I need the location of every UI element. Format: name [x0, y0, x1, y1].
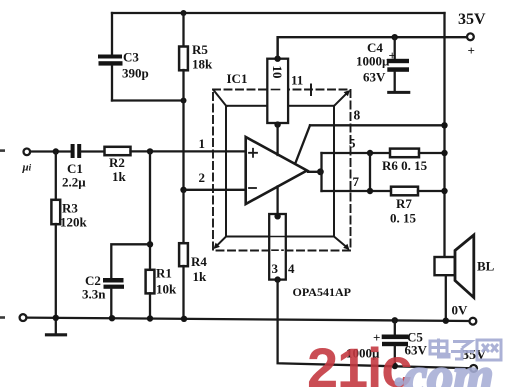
svg-text:4: 4 — [288, 261, 295, 276]
svg-text:0V: 0V — [452, 303, 469, 318]
wire feedback node to pin2 — [182, 101, 184, 190]
svg-text:7: 7 — [353, 174, 360, 189]
node input R3 — [53, 148, 59, 154]
svg-text:OPA541AP: OPA541AP — [293, 285, 351, 299]
watermark dot — [394, 377, 403, 386]
node gnd R3 — [53, 315, 59, 321]
svg-text:μi: μi — [22, 162, 32, 174]
label R3 value — [60, 201, 88, 230]
resistor R5 — [179, 13, 188, 101]
can corner diagonal top-left — [214, 91, 227, 107]
wire ground bus — [27, 318, 470, 321]
watermark CJK wang — [477, 340, 501, 360]
node pin7 junction — [367, 188, 373, 194]
svg-text:R6 0. 15: R6 0. 15 — [382, 158, 428, 173]
terminal +35V — [467, 33, 474, 40]
node gnd C2 — [109, 315, 115, 321]
svg-text:0. 15: 0. 15 — [390, 211, 417, 226]
wire pin2 — [184, 189, 246, 191]
svg-text:10: 10 — [270, 66, 285, 79]
svg-text:1k: 1k — [112, 169, 127, 184]
label C5 value — [346, 330, 428, 361]
node R6 rail — [441, 150, 447, 156]
can corner arrow top-right — [334, 90, 350, 106]
svg-text:R1: R1 — [156, 266, 172, 281]
svg-text:1000μ: 1000μ — [356, 54, 390, 69]
wire right output rail — [443, 13, 445, 257]
node C5 top — [392, 317, 398, 323]
svg-text:R5: R5 — [192, 42, 208, 57]
svg-text:R2: R2 — [109, 155, 125, 170]
svg-text:R7: R7 — [396, 196, 412, 211]
node C4 top — [392, 34, 398, 40]
svg-text:18k: 18k — [192, 57, 213, 72]
watermark CJK zi — [451, 342, 474, 360]
wire pin4 to -35V rail — [278, 280, 470, 369]
label C2 value — [82, 273, 106, 302]
node pin8 rail — [441, 122, 447, 128]
+35V rail wire — [278, 37, 467, 59]
label C3 value — [122, 50, 149, 81]
wire R2 to pin1 — [131, 150, 246, 152]
node gnd R4 — [181, 316, 187, 322]
wire top output rail — [112, 12, 445, 14]
tick pin11 — [310, 85, 312, 96]
resistor R2 — [105, 147, 131, 155]
scan mark left input — [0, 149, 5, 152]
node pin2 — [180, 187, 186, 193]
wire R1 branch — [149, 151, 151, 270]
wire pin5-pin7 link — [369, 153, 371, 191]
svg-text:10k: 10k — [156, 282, 177, 297]
IC1 dashed package outline — [213, 90, 351, 251]
wire C3 to R5 node — [112, 99, 184, 101]
svg-text:5: 5 — [349, 136, 356, 151]
label C1 value — [62, 161, 86, 190]
resistor R1 — [146, 270, 155, 319]
plus input mark — [249, 149, 257, 157]
node speaker gnd — [443, 318, 449, 324]
node R7 rail — [441, 188, 447, 194]
svg-text:BL: BL — [477, 259, 495, 274]
terminal -35V — [470, 365, 477, 372]
svg-text:35V: 35V — [458, 11, 486, 28]
svg-text:390p: 390p — [122, 66, 149, 81]
node output — [317, 168, 324, 175]
resistor R4 — [179, 190, 188, 319]
pin10/11 box — [267, 37, 288, 155]
svg-text:2: 2 — [199, 170, 206, 185]
svg-text:C3: C3 — [123, 50, 139, 65]
terminal 0V — [470, 318, 477, 325]
resistor R6 — [390, 149, 445, 158]
capacitor C5 — [382, 320, 408, 366]
IC1 can outline — [226, 106, 334, 237]
svg-text:1: 1 — [199, 136, 206, 151]
ground terminal — [20, 314, 27, 321]
input terminal — [24, 149, 31, 156]
label R7 value — [390, 196, 417, 226]
svg-text:3: 3 — [272, 261, 279, 276]
node pin5 junction — [367, 150, 373, 156]
node gnd R1 — [147, 315, 153, 321]
resistor R3 — [51, 152, 60, 318]
node C2 tap — [147, 241, 153, 247]
svg-text:8: 8 — [354, 108, 361, 123]
svg-text:11: 11 — [291, 73, 303, 88]
svg-text:R3: R3 — [62, 201, 78, 216]
capacitor C3 — [98, 13, 123, 101]
svg-text:63V: 63V — [363, 70, 386, 85]
minus input mark — [249, 187, 256, 189]
svg-text:+: + — [468, 43, 475, 58]
scan mark left ground — [0, 316, 5, 319]
wire input — [30, 150, 71, 152]
svg-text:3.3n: 3.3n — [82, 287, 106, 302]
node feedback junction — [181, 98, 187, 104]
capacitor C2 — [103, 244, 150, 318]
speaker BL — [435, 235, 474, 321]
ground symbol — [47, 318, 66, 335]
label R2 value — [109, 155, 127, 184]
label R1 value — [156, 266, 177, 297]
can corner arrow bottom-right — [334, 237, 350, 251]
resistor R7 — [391, 187, 445, 196]
svg-text:IC1: IC1 — [227, 71, 248, 86]
node R1 top — [147, 148, 153, 154]
can corner arrow bottom-left — [214, 237, 227, 250]
node R5 top — [181, 10, 187, 16]
capacitor C4 — [387, 37, 409, 92]
wire pin8 — [295, 125, 444, 163]
svg-text:R4: R4 — [191, 254, 207, 269]
svg-text:2.2μ: 2.2μ — [62, 175, 86, 190]
svg-text:1k: 1k — [193, 269, 208, 284]
label C4 value — [356, 40, 396, 85]
op-amp U1 triangle — [246, 137, 307, 204]
capacitor C1 — [71, 144, 82, 158]
label R4 value — [191, 254, 207, 284]
wire output bracket — [308, 153, 391, 191]
pin3/4 box — [269, 187, 286, 283]
node C5 bottom — [392, 363, 398, 369]
svg-text:120k: 120k — [60, 215, 88, 230]
wire C1 to R2 — [81, 150, 104, 152]
svg-text:+: + — [389, 48, 396, 63]
watermark CJK dian — [430, 339, 449, 358]
label R5 value — [192, 42, 213, 72]
